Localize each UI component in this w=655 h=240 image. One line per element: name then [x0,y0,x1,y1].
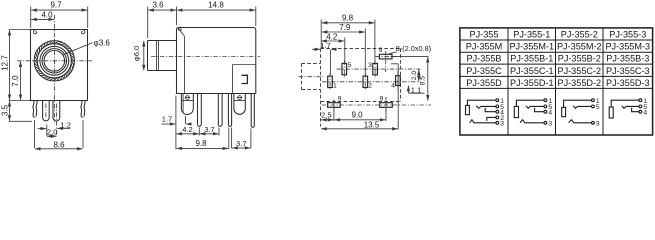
terminal 1 wire [564,100,592,107]
svg-text:3: 3 [500,120,504,127]
bottom pad 9 right centerline [385,97,387,113]
plug symbol cell 4 [609,107,613,118]
dim 12.7 [9,30,30,101]
pin 1 dim extension [46,124,48,135]
terminal 1 circle [544,99,547,102]
terminal 1 wire [611,100,639,107]
front view pin 1 [43,101,50,121]
svg-text:2.0: 2.0 [47,127,58,136]
pin 2 centerline [56,104,58,137]
svg-text:PJ-355-3: PJ-355-3 [609,29,646,39]
pad 1 [328,76,333,87]
dim 8.5 [393,55,429,57]
jack bushing knurl ring [34,41,74,81]
terminal 1 circle [639,99,642,102]
dim 9.8 top [321,20,375,64]
bottom pad 9 left centerline [333,100,335,112]
dim 9.8 (overall) [228,128,230,150]
svg-text:14.8: 14.8 [208,0,224,9]
plug symbol cell 2 [514,106,518,117]
front view vertical centerline [54,15,56,123]
dim 7.9 [364,29,366,75]
svg-text:φ3.6: φ3.6 [94,39,111,48]
svg-text:PJ-355-2: PJ-355-2 [561,29,598,39]
dim 14.8 (body length) [255,7,257,27]
svg-text:3.7: 3.7 [204,125,215,134]
pads row A centerline [337,68,421,70]
side view rear step [233,65,256,94]
plug symbol cell 3 [562,107,566,116]
SCHEMATIC CELL 4 (PJ-355-3 family) [609,98,647,118]
dim 2.5 [321,119,333,121]
pad 5 centerline [343,61,345,79]
dim 3.5 [9,101,11,121]
front view body outline [31,30,88,101]
13.5 right extension [391,64,398,130]
svg-text:3: 3 [548,120,552,127]
svg-text:12.7: 12.7 [0,55,9,71]
side view top-left corner ear [178,27,181,31]
SCHEMATIC CELL 1 (PJ-355 family) [466,98,505,128]
svg-text:1.7: 1.7 [162,115,173,124]
dim 4.2 [344,38,346,63]
svg-text:13.5: 13.5 [364,120,380,129]
svg-text:PJ-355B-3: PJ-355B-3 [606,54,649,64]
svg-text:1: 1 [333,83,337,90]
svg-text:4: 4 [643,109,647,116]
svg-text:PJ-355D-3: PJ-355D-3 [606,78,650,88]
side view barrel bottom [148,70,177,72]
bottom pad 9 right [380,103,393,108]
jack bushing knurl inner circle [37,44,71,78]
pad 3 [373,63,378,74]
pad 2 centerline [364,73,366,91]
terminal 5 circle [592,105,595,108]
side view body outline [177,28,256,94]
terminal 2 wire [487,117,496,121]
svg-text:3.7: 3.7 [236,139,247,148]
svg-text:4: 4 [548,109,552,116]
front view top-left corner ear [33,30,36,34]
pad 3 centerline [374,61,376,79]
dim 4.2 (pin pitch) [198,128,200,136]
front view pin 2 [53,101,60,122]
footprint barrel centerline [299,76,324,78]
dim 1.7 (peg offset) [175,96,177,150]
pad 4 [396,76,401,86]
terminal 3 wire with contact arm [520,120,544,123]
terminal 3 circle [592,121,595,124]
terminal 1 circle [592,99,595,102]
svg-text:3.5: 3.5 [0,104,9,116]
side view bracket detail [242,75,248,83]
svg-text:9.7: 9.7 [50,0,62,9]
leader for pad size label [388,52,397,55]
svg-text:PJ-355M-3: PJ-355M-3 [605,42,650,52]
terminal 5 wire with contact [476,106,496,109]
dim 3.7 (pin pitch) [218,128,220,136]
svg-text:3: 3 [368,62,372,69]
footprint body outline (dashed) [321,48,401,50]
peg B crimp detail [238,96,242,100]
terminal 4 wire [485,108,496,112]
terminal 4 circle [639,110,642,113]
dim 2.0 [47,135,57,137]
table grid lines [460,28,653,135]
side view front chamfer edge [178,28,184,36]
top pad 9 [379,54,392,59]
svg-text:9: 9 [379,47,383,54]
footprint barrel outline (dashed) [302,64,321,90]
bottom pad 9 left [328,103,341,108]
svg-text:PJ-355B-2: PJ-355B-2 [558,54,601,64]
svg-text:8.5: 8.5 [420,76,427,86]
pad 1 centerline [329,73,331,91]
svg-text:PJ-355C: PJ-355C [466,66,502,76]
svg-text:4.2: 4.2 [326,32,338,41]
SCHEMATIC CELL 2 (PJ-355-1 family) [514,98,552,128]
svg-text:PJ-355M-2: PJ-355M-2 [557,42,602,52]
PART NUMBER TABLE [460,28,653,135]
terminal 2 circle [496,116,499,119]
svg-text:9: 9 [338,95,342,102]
svg-text:4.2: 4.2 [182,125,193,134]
svg-text:PJ-355: PJ-355 [470,29,499,39]
terminal 4 wire [535,108,544,112]
dim 8.6 [35,120,84,148]
front view top-right corner ear [82,30,85,34]
plug symbol cell 1 [466,105,470,114]
side view pin (row 2) [218,94,222,127]
bottom pads centerline [322,104,432,106]
pad 2 [363,76,368,87]
terminal 5 wire with contact [622,106,639,109]
dim 2.0 (row pitch) [418,70,420,82]
phi3.6 hole circle [44,51,65,72]
dim 3.6 (barrel length) [148,7,177,39]
terminal 1 wire [467,100,496,105]
svg-text:PJ-355B-1: PJ-355B-1 [510,54,553,64]
terminal 1 wire [516,100,544,106]
jack bushing outer circle [34,41,74,81]
dim 1.2 [57,127,70,129]
svg-text:8-(2.0x0.8): 8-(2.0x0.8) [396,44,431,53]
svg-text:PJ-355-1: PJ-355-1 [513,29,550,39]
dim 1.7 [329,50,331,75]
jack nut ring pair [40,46,69,75]
dim 3.7 (rear pin) [232,128,251,149]
dim 7.0 [20,61,22,100]
svg-text:PJ-355C-1: PJ-355C-1 [510,66,554,76]
svg-text:PJ-355M-1: PJ-355M-1 [509,42,554,52]
side view barrel collar [157,41,159,71]
front view horizontal centerline [17,60,92,62]
side view pin (row 4) [251,94,254,128]
terminal 3 wire with contact arm [569,120,592,123]
svg-text:φ6.0: φ6.0 [132,46,141,61]
svg-text:9: 9 [380,95,384,102]
dim 13.5 [321,128,398,130]
svg-text:8.6: 8.6 [53,141,65,150]
svg-text:PJ-355M: PJ-355M [466,42,503,52]
svg-text:PJ-355C-3: PJ-355C-3 [606,66,650,76]
terminal 5 circle [639,105,642,108]
side view pin (row 1) [198,94,202,127]
svg-text:9.8: 9.8 [195,139,207,148]
svg-text:7.0: 7.0 [11,75,20,87]
svg-text:3: 3 [596,120,600,127]
terminal 5 circle [496,105,499,108]
side view inner front wall [184,36,186,93]
svg-text:PJ-355D-2: PJ-355D-2 [557,78,601,88]
dim 9.7 [31,7,88,29]
side view barrel top [148,40,177,42]
svg-text:7.9: 7.9 [339,23,351,32]
svg-text:PJ-355D-1: PJ-355D-1 [510,78,554,88]
terminal 3 circle [496,121,499,124]
table outer border [460,28,653,135]
terminal 3 circle [544,121,547,124]
svg-text:5: 5 [596,104,600,111]
svg-text:PJ-355D: PJ-355D [466,78,502,88]
terminal 5 wire with contact [526,106,544,109]
peg A crimp detail [186,96,190,100]
svg-text:2.5: 2.5 [321,111,332,120]
svg-text:4: 4 [391,82,395,89]
front view left side peg (break lines) [33,101,37,118]
side view barrel face [147,41,149,71]
phi3.6 leader line [63,43,92,55]
svg-text:3.6: 3.6 [152,0,164,9]
terminal 4 circle [544,110,547,113]
dim 4.0 [31,18,54,20]
SCHEMATIC CELL 3 (PJ-355-2 family) [562,98,600,128]
side view pin (row 3) [228,94,231,127]
svg-text:9.0: 9.0 [351,111,363,120]
svg-text:4.0: 4.0 [41,10,53,19]
terminal 5 circle [544,105,547,108]
svg-text:2.0: 2.0 [411,71,418,81]
side view mounting peg A [181,94,193,115]
svg-text:5: 5 [348,62,352,69]
svg-text:1.7: 1.7 [320,41,331,50]
front view right side peg (break lines) [81,101,85,118]
terminal 4 wire [632,108,639,112]
terminal 1 circle [496,99,499,102]
terminal 4 circle [496,110,499,113]
svg-text:1.2: 1.2 [60,120,71,129]
pad 4 centerline [397,71,399,91]
terminal 5 wire with contact [573,106,591,109]
svg-text:PJ-355B: PJ-355B [467,54,502,64]
pads row B centerline [322,81,421,83]
top pad 9 centerline [376,51,397,72]
dim 9.0 [334,108,386,121]
svg-text:9.8: 9.8 [342,14,354,23]
svg-text:2: 2 [368,83,372,90]
pad 5 [342,63,347,74]
pin 1 centerline [45,104,47,120]
side view centerline [151,56,260,58]
side view mounting peg B [234,94,245,115]
dim phi6.0 [143,41,145,71]
svg-text:PJ-355C-2: PJ-355C-2 [557,66,601,76]
terminal 3 wire with contact arm [470,120,496,123]
